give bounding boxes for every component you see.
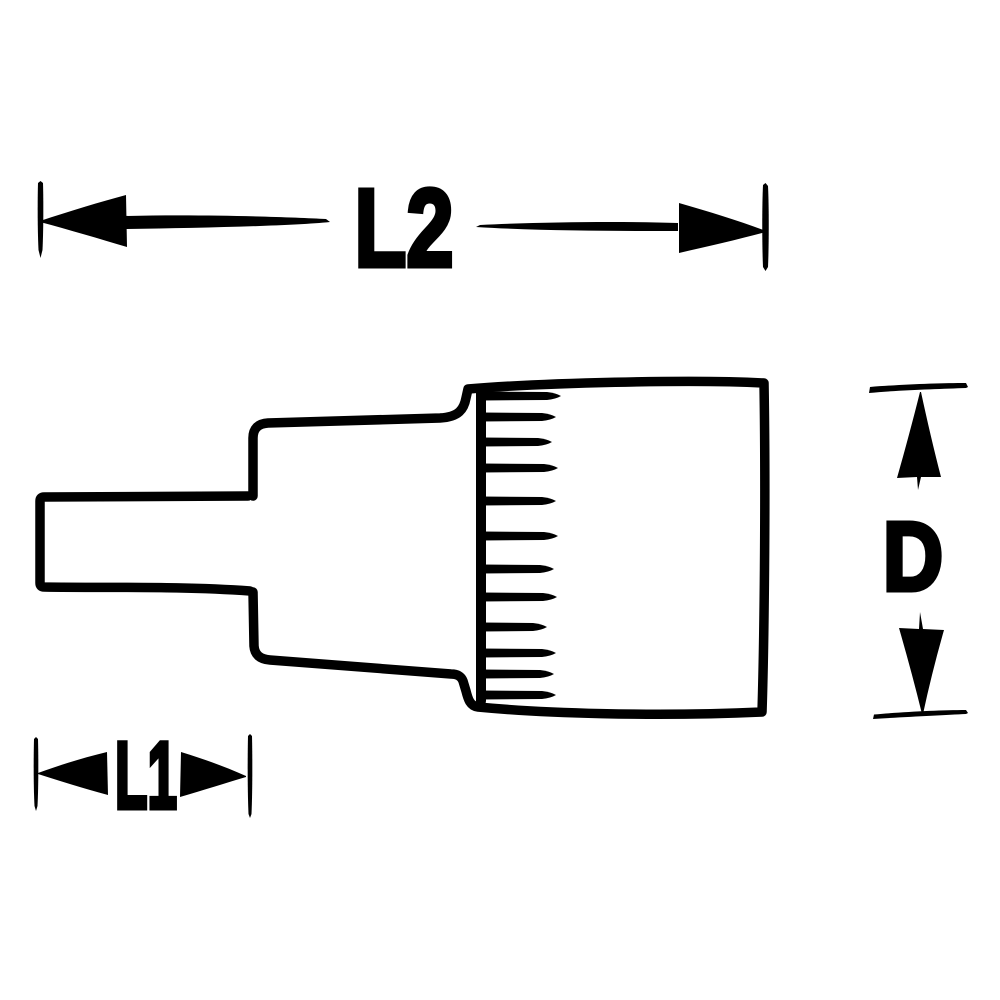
- dimension D bottom arrowhead: [899, 612, 944, 714]
- knurl ridge 10: [481, 649, 556, 658]
- dimension L2 right line: [476, 222, 678, 231]
- dimension L1 left tick: [34, 737, 39, 811]
- knurl ridge 8: [481, 593, 557, 602]
- dimension D top tick: [869, 383, 968, 393]
- knurl ridge 5: [481, 497, 556, 506]
- socket knurl left edge: [476, 391, 486, 701]
- knurl ridge 7: [481, 565, 554, 574]
- dimension L2 left arrowhead: [40, 195, 127, 247]
- svg-text:L1: L1: [115, 723, 177, 829]
- dimension L2 right tick: [762, 183, 769, 271]
- dimension D top arrowhead: [897, 392, 941, 490]
- dimension L2 left line: [125, 215, 330, 229]
- knurl ridge 4: [481, 464, 558, 473]
- knurl ridge 1: [481, 392, 561, 401]
- knurl ridge 12: [481, 691, 556, 700]
- socket body outline: [253, 381, 765, 714]
- knurl ridge 6: [481, 532, 558, 541]
- dimension L1 left arrowhead: [38, 752, 108, 795]
- knurl ridge 11: [481, 670, 554, 679]
- bit shaft: [40, 496, 250, 591]
- knurl ridge 2: [481, 413, 556, 422]
- knurl ridge 9: [481, 623, 547, 632]
- knurl ridge 3: [481, 438, 552, 447]
- dimension L1 right tick: [248, 734, 253, 818]
- svg-text:D: D: [883, 502, 943, 611]
- dimension L1 right arrowhead: [180, 752, 246, 797]
- svg-text:L2: L2: [355, 167, 454, 290]
- dimension L2 right arrowhead: [679, 203, 766, 253]
- dimension L2 left tick: [38, 181, 44, 258]
- dimension D bottom tick: [873, 710, 968, 719]
